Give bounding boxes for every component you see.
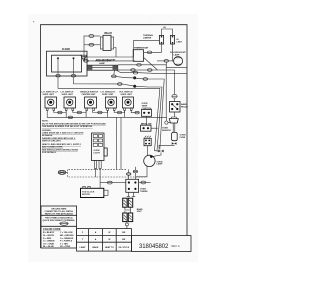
svg-text:GY = GRAY: GY = GRAY (43, 242, 55, 245)
thermostat lower box (126, 179, 139, 192)
connector link1 (58, 111, 63, 114)
wire thermo right (144, 51, 148, 53)
switch SW3 labels (80, 92, 99, 97)
wire prong right down (99, 169, 101, 189)
connector clock right (71, 74, 76, 77)
wire bowtie to lamp (152, 152, 162, 156)
oven temp control box (142, 110, 152, 117)
svg-text:LAMP: LAMP (174, 53, 181, 56)
wire bus A right (138, 72, 157, 75)
svg-text:T = TAN: T = TAN (60, 242, 68, 245)
svg-text:SWITCH CIRCUITS.: SWITCH CIRCUITS. (42, 140, 62, 142)
connector clock left (56, 74, 61, 77)
svg-text:SURF. UNIT: SURF. UNIT (102, 94, 114, 96)
oven lamp2 circle (144, 155, 155, 166)
plug notch (104, 148, 107, 156)
connector bus D (143, 78, 148, 81)
wire relay bottom lead (84, 44, 89, 46)
svg-text:ML OF THE SWITCHES ARE SHOWN I: ML OF THE SWITCHES ARE SHOWN IN THE OFF … (42, 122, 106, 125)
oven lamp circle (174, 57, 183, 66)
svg-text:HEAT TO: HEAT TO (105, 246, 114, 249)
oven temp control label (142, 103, 153, 110)
color code entries (43, 231, 74, 248)
wire thermo lower right2 (146, 182, 151, 184)
wire lamp feed (157, 60, 164, 62)
svg-text:LAMP: LAMP (80, 246, 87, 249)
wire SW5 to control (131, 110, 135, 112)
svg-text:UNIT: UNIT (137, 211, 143, 213)
svg-text:TOD CLOCK: TOD CLOCK (82, 191, 95, 193)
plug label (94, 150, 101, 154)
thermostat box top (133, 50, 143, 62)
wire link3 b (102, 110, 107, 112)
ground chassis symbol (81, 55, 87, 61)
relay enclosure box (84, 36, 134, 58)
connector control left (135, 111, 140, 114)
wire limiter top loop (162, 29, 173, 35)
wire clock right lead (73, 58, 75, 74)
part number box (132, 236, 192, 252)
element pair 2 (123, 213, 133, 222)
NOTE text block (42, 121, 106, 154)
dashed box top (66, 169, 126, 172)
connector link4 (117, 111, 122, 114)
connector lamp left (84, 60, 89, 63)
wire thermo up right (135, 173, 137, 179)
svg-text:AND CONNECTIONS.: AND CONNECTIONS. (42, 146, 63, 149)
svg-text:LINES SHOW 240 V. AND 120 V. C: LINES SHOW 240 V. AND 120 V. CIRCUITS (42, 132, 84, 135)
fuse F2 label (177, 39, 183, 44)
svg-text:NOTE:: NOTE: (42, 121, 49, 123)
svg-text:PARTS OF THIS APPLIANCE: PARTS OF THIS APPLIANCE (45, 212, 74, 215)
wire element down (125, 211, 127, 223)
wire broil box right (151, 127, 158, 129)
wire thermo up left2 (128, 169, 130, 172)
connector relay top (89, 35, 95, 38)
wire tube to busA (117, 70, 134, 72)
title block divider 2 (41, 225, 77, 227)
wire lamp down (136, 166, 147, 177)
wire clock bus to dotE (122, 84, 134, 86)
svg-text:W = WHITE: W = WHITE (43, 235, 55, 237)
wire link4 b (122, 110, 125, 112)
plug body (92, 133, 105, 161)
indicator oval with cross (58, 170, 66, 174)
svg-text:DASHED LINES INDICATE LOW V.: DASHED LINES INDICATE LOW V. (42, 137, 76, 140)
switch SW2 labels (61, 92, 74, 97)
wire link SW4-SW5 (114, 110, 117, 112)
svg-text:FOR DETAILS.: FOR DETAILS. (42, 151, 57, 154)
surface switch SW1 (45, 97, 57, 110)
switch SW5 labels (120, 92, 133, 97)
svg-text:THERMOSTAT: THERMOSTAT (134, 47, 149, 50)
wire enclosure to limiter (134, 39, 160, 41)
wire sw5 left drop (124, 110, 126, 117)
connector thermo up left (126, 173, 131, 176)
wire link SW1-SW2 (54, 110, 58, 112)
clock terminal dot right (73, 57, 75, 59)
svg-text:REV. A: REV. A (172, 244, 180, 248)
wire elements join (125, 207, 131, 213)
wire thermo diagonal (144, 57, 158, 70)
wire prong left down (95, 169, 97, 178)
grid table text (80, 231, 130, 249)
wire lamp top feed (89, 60, 136, 62)
title block header text (44, 208, 73, 215)
connector prong branch (107, 181, 112, 184)
connector thermo right (147, 51, 152, 54)
svg-text:MOTOR: MOTOR (82, 194, 90, 196)
socket block with dots (144, 136, 151, 146)
svg-text:QUICK DISCONNECT TERMINAL: QUICK DISCONNECT TERMINAL (43, 219, 76, 222)
element pair 1 (123, 198, 133, 207)
title block table (41, 206, 77, 248)
connector bus C2 (147, 69, 152, 72)
wire terminal to block (166, 117, 170, 122)
oven lamp2 label (157, 161, 164, 165)
plug prong left (95, 161, 97, 169)
connector starter (111, 75, 116, 78)
svg-text:CLOCK: CLOCK (62, 49, 71, 51)
TOD label (82, 191, 95, 196)
wire thermo lower right (139, 182, 141, 184)
wire link SW3-SW4 (93, 110, 98, 112)
svg-text:RELAY: RELAY (105, 32, 113, 35)
wire chain 2 (174, 112, 176, 117)
svg-text:O = ORANGE: O = ORANGE (60, 237, 74, 240)
svg-text:IN RANGE.: IN RANGE. (42, 134, 53, 137)
surface switch SW2 (64, 97, 76, 110)
wire bus C mid (136, 69, 148, 71)
socket bell (169, 119, 178, 123)
svg-text:PK = PINK: PK = PINK (60, 246, 71, 248)
switch SW1 labels (42, 92, 59, 97)
wire branch to thermostat (112, 182, 125, 184)
clock outer box (47, 51, 88, 76)
wire thermo to fuse1 (152, 44, 161, 52)
relay block label (181, 103, 188, 108)
svg-text:R = RED: R = RED (43, 238, 52, 240)
wire tube to starter (113, 70, 116, 75)
stray speck (33, 21, 34, 22)
wire enclosure to lamp connector (83, 57, 85, 61)
svg-text:SURF. UNIT: SURF. UNIT (62, 94, 74, 96)
wire relay right (114, 48, 116, 58)
svg-text:BR = BROWN: BR = BROWN (60, 235, 74, 237)
thermostat lower label (140, 189, 148, 194)
wire fuse2 down (173, 44, 174, 61)
fuse F2 (170, 35, 174, 44)
connector clock bus (117, 83, 122, 86)
junction dot E (133, 85, 136, 88)
terminal circle bottom (125, 223, 128, 226)
svg-text:BR: BR (122, 239, 126, 241)
connector thermo lower right (141, 181, 146, 184)
connector bowtie (158, 150, 163, 153)
wire bus B right (142, 65, 167, 118)
broil box (141, 125, 152, 131)
bundle vertical 1 (155, 88, 160, 151)
fluorescent tube (87, 65, 118, 70)
clock inner box (52, 55, 82, 72)
connector lamp feed (164, 60, 169, 63)
surface switch SW5 (123, 97, 134, 110)
socket bell cap (171, 117, 177, 119)
junction dot lamp (150, 155, 153, 158)
chain label left (162, 127, 171, 132)
svg-text:LIMITER: LIMITER (143, 37, 152, 39)
wire relay bottom lead2 (94, 44, 100, 46)
middle vertical v1 (116, 117, 118, 169)
wire lamp feed2 (169, 60, 174, 62)
wire link1 b (62, 110, 66, 112)
wire bus D right (135, 77, 143, 80)
connector bus B (137, 64, 142, 67)
svg-text:HEAVY LINES INDICATE 240 V. SU: HEAVY LINES INDICATE 240 V. SUPPLY (42, 143, 82, 146)
wire starter to dot (116, 77, 125, 78)
relay body (103, 35, 111, 50)
terminal circle right of bus (165, 121, 168, 124)
fluorescent lamp label (96, 60, 112, 64)
svg-text:LAMP: LAMP (157, 163, 164, 166)
svg-text:W: W (108, 232, 110, 234)
thermal cutout note text (143, 34, 154, 40)
wire right run lower (157, 73, 187, 75)
svg-text:LAMP: LAMP (99, 62, 106, 65)
fuse F1 (159, 35, 163, 44)
plug slots (93, 135, 102, 147)
element pair1 label (137, 208, 144, 213)
dashed box bottom (68, 172, 148, 177)
wiring grid table (77, 229, 132, 252)
relay right plate (111, 37, 114, 49)
wire link SW2-SW3 (73, 110, 77, 112)
connector relay bottom (89, 43, 95, 46)
svg-text:FUSE: FUSE (180, 137, 186, 139)
svg-text:B = BLACK: B = BLACK (43, 231, 55, 234)
connector bowtie capsule (172, 142, 177, 145)
wire bus D (y78.5) (125, 77, 135, 79)
wire chain (174, 98, 176, 101)
wire chain 3 (159, 145, 174, 149)
wire bus D right2 (148, 79, 164, 150)
wire to table (126, 226, 128, 229)
wire clock left lead (57, 58, 59, 74)
wire thermo up right2 (134, 167, 136, 170)
title block divider 1 (41, 214, 77, 216)
wire relay top lead (84, 35, 89, 37)
svg-text:P = PURPLE: P = PURPLE (60, 241, 73, 243)
svg-text:SEE INSTALLATION INSTRUCTIONS: SEE INSTALLATION INSTRUCTIONS (42, 148, 78, 151)
connector bus C1 (131, 69, 136, 72)
svg-text:W: W (108, 239, 110, 241)
capsule label (180, 135, 186, 140)
wire thermostat feet (127, 192, 135, 196)
connector link3 (98, 111, 103, 114)
svg-text:OIL STYLE: OIL STYLE (118, 247, 129, 249)
relay block K1 (170, 102, 181, 113)
switch SW4 labels (101, 92, 116, 97)
junction dot D (133, 76, 136, 79)
oven lamp label (170, 52, 186, 56)
middle vertical v2 (120, 117, 122, 169)
svg-text:THE RANGE IS WIRED FOR 240 VOL: THE RANGE IS WIRED FOR 240 VOLT OPERATIO… (42, 125, 93, 128)
wire clock left to bus (58, 77, 160, 88)
wire lamp branch down (166, 62, 187, 67)
wire socket to lamp (147, 146, 149, 156)
svg-text:SURF. UNIT: SURF. UNIT (43, 94, 55, 96)
svg-text:SENSOR: SENSOR (162, 130, 171, 132)
main bus below switches (47, 110, 167, 117)
svg-text:LIMIT: LIMIT (177, 41, 183, 43)
wire bus C right to chain (152, 70, 174, 94)
svg-text:BL = BLUE: BL = BLUE (43, 246, 54, 248)
main enclosure border (41, 25, 188, 248)
svg-text:SURF. UNIT: SURF. UNIT (121, 94, 133, 96)
wire bus B (y64.5) (118, 64, 137, 66)
plug prong right (99, 161, 101, 169)
svg-text:Y = YELLOW: Y = YELLOW (60, 232, 73, 234)
connector chain top (172, 94, 178, 98)
wire control to broil box (145, 116, 147, 125)
wire bus E right (135, 85, 162, 88)
svg-text:COLOR CODE: COLOR CODE (43, 227, 61, 231)
connector thermo up right (133, 170, 138, 173)
surface switch SW4 (106, 97, 117, 110)
svg-text:BR: BR (122, 232, 126, 234)
wire sw4 left drop (107, 110, 109, 117)
svg-text:318045802: 318045802 (139, 244, 169, 250)
title block mid text (43, 217, 76, 223)
svg-text:RELAY: RELAY (181, 105, 188, 108)
svg-text:CENTER UNIT: CENTER UNIT (82, 94, 97, 96)
capsule component (172, 132, 178, 140)
wire thermo up left (128, 175, 130, 179)
wire link2 b (82, 110, 86, 112)
svg-text:THERM: THERM (140, 191, 148, 193)
wire clock right to bus (74, 77, 118, 84)
connector link2 (77, 111, 82, 114)
wire bell to capsule (173, 123, 175, 132)
connector bus A (133, 71, 138, 74)
surface switch SW3 (85, 97, 97, 110)
svg-text:BAKE: BAKE (93, 246, 100, 249)
connector bus low (68, 116, 73, 119)
wire prong branch right (100, 182, 107, 184)
wire bus C (y70) (118, 69, 131, 71)
svg-text:LIGHT: LIGHT (94, 152, 101, 154)
TOD box (81, 186, 109, 197)
wire sw2 left drop (65, 110, 67, 117)
wire sw3 left drop (85, 110, 87, 117)
relay left plate (100, 37, 103, 49)
bundle vertical 2 (157, 87, 162, 151)
title block symbol (59, 222, 68, 225)
clock terminal dot left (57, 57, 59, 59)
svg-text:G = GREEN: G = GREEN (43, 241, 55, 243)
wire relay top lead2 (94, 35, 100, 37)
